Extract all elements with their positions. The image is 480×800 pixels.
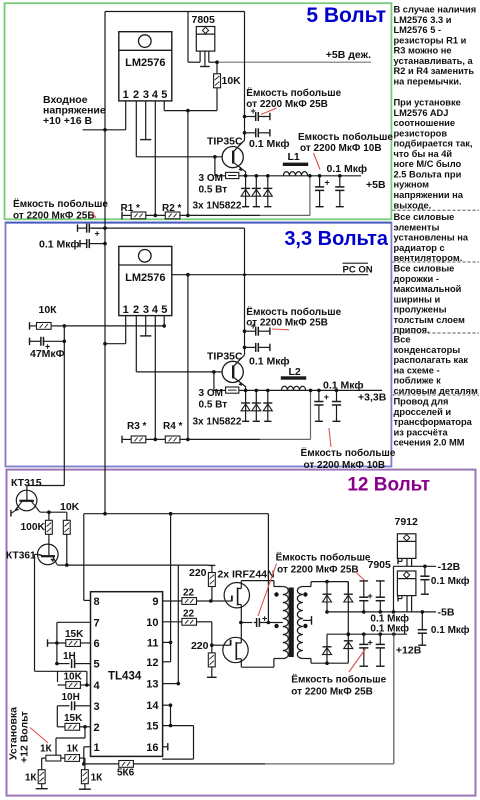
diode D1 1N5822 xyxy=(241,176,250,207)
wire: pin4 sec2 feedback xyxy=(154,316,156,440)
Q3 bar xyxy=(19,500,33,502)
pin16 stub + tick xyxy=(163,746,168,748)
10K riser xyxy=(57,671,59,682)
capacitor 2200uF out (sec2) xyxy=(314,401,323,403)
svg-text:4: 4 xyxy=(152,304,159,316)
svg-text:0.1 Мкф: 0.1 Мкф xyxy=(249,356,290,368)
svg-text:радиатор с: радиатор с xyxy=(394,243,445,253)
svg-text:10К: 10К xyxy=(39,304,58,316)
junction R3/R4/pin4 xyxy=(154,438,158,442)
red pointer xyxy=(314,153,321,170)
wire: drop to feedback wire xyxy=(187,111,189,216)
svg-text:1Н: 1Н xyxy=(63,651,76,662)
svg-text:8: 8 xyxy=(94,596,100,608)
pin12 stub + riser to feedback bus xyxy=(163,661,171,663)
svg-text:22: 22 xyxy=(183,588,195,599)
pin10 wire + 22 Ohm xyxy=(163,621,182,623)
svg-text:силовым деталям: силовым деталям xyxy=(394,386,478,396)
svg-text:Ёмкость побольше: Ёмкость побольше xyxy=(246,86,341,99)
output capacitors sec2 xyxy=(317,389,321,393)
wire: section2 top bus xyxy=(92,227,245,229)
svg-text:5К6: 5К6 xyxy=(117,768,135,779)
wire: bus to 220#1 xyxy=(178,564,208,566)
phase dot primary top xyxy=(274,592,278,596)
pin9 wire + 22 Ohm xyxy=(163,600,182,602)
wire: pin5 to 10K xyxy=(163,101,165,111)
pin2: 15K xyxy=(57,726,65,728)
wire: KT361 bus drop to pin13 xyxy=(177,565,179,684)
red pointer to snubber cap xyxy=(258,564,277,617)
svg-text:толстым слоем: толстым слоем xyxy=(394,315,465,325)
red tick xyxy=(92,212,97,219)
Q1 bar xyxy=(232,151,234,164)
svg-text:0.1 Мкф: 0.1 Мкф xyxy=(323,380,364,392)
svg-text:Все: Все xyxy=(394,335,411,345)
svg-text:47МкФ: 47МкФ xyxy=(30,348,65,360)
resistor 1K vertical left xyxy=(38,770,45,784)
svg-text:4: 4 xyxy=(94,680,101,692)
svg-text:2: 2 xyxy=(133,89,139,101)
transformer core xyxy=(289,588,294,658)
IC U1 LM2576 (5V) xyxy=(119,32,172,102)
potentiometer 1K xyxy=(46,755,61,761)
wire: pin4 net xyxy=(35,670,87,672)
svg-text:TL434: TL434 xyxy=(108,671,142,683)
wire: output return loop sec1 xyxy=(260,214,310,216)
secondary center tap xyxy=(303,619,312,621)
svg-text:сечения 2.0 ММ: сечения 2.0 ММ xyxy=(394,438,465,448)
svg-text:резисторов: резисторов xyxy=(394,128,448,138)
resistor R3 xyxy=(131,436,146,443)
capacitor 0.1uF left (sec2) xyxy=(79,240,81,247)
svg-text:L2: L2 xyxy=(289,366,301,378)
resistor 3 Ohm sec2 xyxy=(214,389,226,391)
svg-text:КТ361: КТ361 xyxy=(6,551,36,562)
svg-text:+12 Вольт: +12 Вольт xyxy=(19,711,31,763)
diode D7 xyxy=(323,582,332,612)
svg-text:0.5 Вт: 0.5 Вт xyxy=(199,400,228,411)
svg-text:+: + xyxy=(368,638,373,648)
wire: pin1 sec2 xyxy=(125,316,127,344)
pin6: tick, 15K xyxy=(47,639,49,646)
red pointer trimmer xyxy=(30,728,48,744)
svg-text:14: 14 xyxy=(146,700,159,712)
wire: pin8 riser and feedback bus y=513.7 xyxy=(83,514,85,601)
junction base/3ohm xyxy=(213,155,217,159)
wire: pin3 ground stub xyxy=(145,101,147,139)
svg-text:Ёмкость побольше: Ёмкость побольше xyxy=(276,551,371,564)
capacitor 2200uF +12 rail xyxy=(363,634,365,644)
wire: base drop sec2 xyxy=(213,372,215,391)
pin7 wire to pin6 node xyxy=(57,621,91,623)
wire: -12V rail xyxy=(394,565,437,567)
svg-text:LM2576: LM2576 xyxy=(125,272,165,284)
Q1 emitter diag xyxy=(233,162,245,172)
capacitor 2200uF out (sec1) xyxy=(315,186,324,188)
wire: KT361 emitter bus xyxy=(57,564,178,566)
svg-text:от 2200 МкФ 25В: от 2200 МкФ 25В xyxy=(291,687,373,698)
svg-text:1: 1 xyxy=(123,304,129,316)
svg-text:3,3 Вольта: 3,3 Вольта xyxy=(284,228,389,250)
diode D3 1N5822 xyxy=(263,176,272,207)
resistor R1 xyxy=(131,212,146,219)
svg-text:от 2200 МкФ 25В: от 2200 МкФ 25В xyxy=(246,99,328,110)
resistor 15K pin6 xyxy=(66,640,81,647)
capacitor 2200uF 25V (input, sec1) xyxy=(245,116,256,118)
wire: pin4 feedback down to R1/R2 junction xyxy=(154,101,156,215)
svg-text:0.1 Мкф: 0.1 Мкф xyxy=(431,575,470,587)
svg-text:максимальной: максимальной xyxy=(394,284,462,294)
diode D5 1N5822 xyxy=(252,390,261,421)
svg-text:-12В: -12В xyxy=(438,561,461,573)
svg-text:1К: 1К xyxy=(91,773,104,784)
svg-text:1К: 1К xyxy=(25,773,38,784)
M1 gate bar xyxy=(231,596,233,602)
svg-text:10: 10 xyxy=(146,617,158,629)
svg-text:R4 *: R4 * xyxy=(163,421,183,432)
svg-text:конденсаторы: конденсаторы xyxy=(394,345,461,355)
wire: collector rail x=244.5 xyxy=(244,12,246,141)
capacitor 2200uF 25V left (sec2) xyxy=(77,224,79,231)
wire: output wire sec2 xyxy=(246,389,382,391)
svg-text:10K: 10K xyxy=(64,672,83,683)
wire to cap xyxy=(241,622,252,624)
Q3 base diag xyxy=(31,501,40,512)
section border 3.3V (blue) xyxy=(6,223,392,467)
pin14 stub xyxy=(163,704,171,706)
svg-text:+: + xyxy=(325,178,330,188)
wire: pin2 down-right to TIP35C base xyxy=(135,101,137,157)
wire: top input bus xyxy=(105,11,245,13)
svg-text:0.1 Мкф: 0.1 Мкф xyxy=(39,239,80,251)
IC U2 LM2576 (3.3V) xyxy=(119,246,172,316)
wire: negative rail (-) xyxy=(327,611,436,613)
rectifier bridge diodes xyxy=(325,580,329,584)
wire: M sources/drains node + snubber cap xyxy=(239,621,243,625)
svg-text:3 ОМ: 3 ОМ xyxy=(199,173,223,184)
capacitor 0.1uF +12 rail xyxy=(379,634,381,644)
resistor 10K pin4 xyxy=(58,684,66,686)
svg-text:0.1 Мкф: 0.1 Мкф xyxy=(431,624,470,636)
IC U5 TL434 xyxy=(91,592,163,757)
svg-text:7912: 7912 xyxy=(395,516,419,528)
svg-text:L1: L1 xyxy=(288,151,300,163)
svg-text:2: 2 xyxy=(94,722,100,734)
svg-text:Все силовые: Все силовые xyxy=(394,212,455,222)
secondary winding xyxy=(297,587,303,659)
svg-text:11: 11 xyxy=(147,637,159,649)
svg-text:3: 3 xyxy=(94,701,100,713)
wire: pin2 sec2 to TIP base xyxy=(135,316,137,372)
right side of chain xyxy=(80,757,85,759)
phase dot primary mid xyxy=(274,624,278,628)
junction cap 2200uF xyxy=(243,115,247,119)
svg-text:Провод для: Провод для xyxy=(394,397,449,407)
svg-text:резисторы R1 и: резисторы R1 и xyxy=(394,35,467,45)
svg-text:Ёмкость побольше: Ёмкость побольше xyxy=(291,673,386,686)
svg-text:15K: 15K xyxy=(64,713,83,724)
svg-text:LM2576 ADJ: LM2576 ADJ xyxy=(394,108,449,118)
resistor 3 Ohm 0.5W xyxy=(215,175,226,177)
wire: PC ON xyxy=(172,274,368,276)
svg-text:напряжении на: напряжении на xyxy=(394,190,464,200)
svg-text:Ёмкость побольше: Ёмкость побольше xyxy=(13,197,108,210)
svg-text:4: 4 xyxy=(152,89,159,101)
svg-text:6: 6 xyxy=(94,638,100,650)
red pointer to neg cap xyxy=(356,572,365,581)
capacitor 0.1uF out (sec1) xyxy=(335,186,344,188)
section border 12V (purple) xyxy=(7,470,476,796)
resistor R2 xyxy=(165,212,180,219)
svg-text:3х 1N5822: 3х 1N5822 xyxy=(193,201,242,212)
wire: input stub to pin1 xyxy=(83,129,126,131)
resistor 1K b xyxy=(65,755,80,762)
Q2 bar xyxy=(232,365,234,378)
diode D6 1N5822 xyxy=(263,390,272,421)
gnd tick 7805 xyxy=(200,66,210,68)
svg-text:5: 5 xyxy=(161,89,167,101)
Q1 collector diag xyxy=(233,140,244,152)
wire: KT361 left lead down xyxy=(35,553,38,555)
diode D2 1N5822 xyxy=(252,176,261,207)
svg-text:соотношение: соотношение xyxy=(394,118,456,128)
wire: pin1 riser xyxy=(125,101,127,130)
svg-text:2: 2 xyxy=(133,304,139,316)
wire: collector rail sec2 xyxy=(244,228,246,355)
svg-text:15: 15 xyxy=(146,721,158,733)
wire: +12 rail xyxy=(327,633,407,635)
svg-text:-5В: -5В xyxy=(438,607,455,619)
svg-text:+5В: +5В xyxy=(366,179,386,191)
svg-text:нужном: нужном xyxy=(394,180,430,190)
resistor 1K vertical right xyxy=(84,764,86,770)
svg-text:от 2200 МкФ 10В: от 2200 МкФ 10В xyxy=(300,143,382,154)
red pointer xyxy=(261,108,277,115)
svg-text:10K: 10K xyxy=(60,501,80,513)
svg-text:13: 13 xyxy=(146,679,158,691)
svg-text:от 2200 МкФ 25В: от 2200 МкФ 25В xyxy=(246,318,328,329)
phase dot secondary mid xyxy=(303,624,307,628)
wire: 7805 input riser xyxy=(187,12,189,63)
svg-text:15K: 15K xyxy=(65,629,84,640)
svg-text:3: 3 xyxy=(143,89,149,101)
svg-text:пролужены: пролужены xyxy=(394,305,447,315)
svg-text:Ёмкость побольше: Ёмкость побольше xyxy=(246,305,341,318)
wire: output wire sec1 xyxy=(246,175,361,177)
svg-text:R1 *: R1 * xyxy=(121,203,141,214)
red pointer sec2 xyxy=(329,428,331,447)
wire pin3 to 15K xyxy=(56,706,58,727)
tick R3 left xyxy=(121,436,123,443)
svg-text:12: 12 xyxy=(146,657,158,669)
svg-text:7805: 7805 xyxy=(192,14,216,26)
wire: 10K node down to KT315 collector wire xyxy=(63,341,65,485)
svg-text:3 ОМ: 3 ОМ xyxy=(199,388,223,399)
wire pin14-pin15 xyxy=(170,705,172,725)
svg-text:дорожки -: дорожки - xyxy=(394,274,439,284)
svg-text:2.5 Вольта при: 2.5 Вольта при xyxy=(394,169,462,179)
M2 channel xyxy=(235,642,237,660)
pin5: 1H cap xyxy=(57,663,70,665)
svg-text:на перемычки.: на перемычки. xyxy=(394,76,462,86)
svg-text:12 Вольт: 12 Вольт xyxy=(347,475,430,496)
svg-text:1К: 1К xyxy=(40,744,53,755)
svg-text:дросселей и: дросселей и xyxy=(394,407,452,417)
svg-text:Емкость побольше: Емкость побольше xyxy=(298,131,393,143)
phase dot secondary top xyxy=(303,592,307,596)
wire: pin5 sec2 / 10K wire xyxy=(163,316,165,326)
svg-text:+12В: +12В xyxy=(396,645,422,657)
svg-text:устанавливать, а: устанавливать, а xyxy=(394,56,474,66)
wire: neg input riser xyxy=(393,566,395,612)
MOSFET M2 IRFZ44N xyxy=(223,637,248,662)
svg-text:установлены на: установлены на xyxy=(394,233,469,243)
resistor 10K vertical (sec3) xyxy=(66,512,68,520)
svg-text:При установке: При установке xyxy=(394,98,461,108)
diode D8 D10 column xyxy=(344,582,353,664)
svg-text:9: 9 xyxy=(152,596,158,608)
primary winding xyxy=(283,587,289,659)
Q4 emitter diag xyxy=(53,556,58,564)
svg-text:16: 16 xyxy=(146,742,158,754)
wire: pc-on node drop xyxy=(187,275,189,440)
svg-text:TIP35C: TIP35C xyxy=(207,136,243,148)
resistor 22 (gate2) xyxy=(182,618,197,625)
wire: pin2 node to pot wiper xyxy=(84,727,86,738)
svg-text:Все силовые: Все силовые xyxy=(394,264,455,274)
pin13 stub xyxy=(163,683,179,685)
resistor 10K (7805 load) xyxy=(216,62,218,74)
svg-text:что бы на 4й: что бы на 4й xyxy=(394,149,453,159)
diode D4 1N5822 xyxy=(241,390,250,421)
svg-text:Ёмкость побольше: Ёмкость побольше xyxy=(301,446,396,459)
svg-text:LM2576 3.3 и: LM2576 3.3 и xyxy=(394,15,452,25)
gnd tick pin3 xyxy=(140,139,151,141)
svg-text:0.5 Вт: 0.5 Вт xyxy=(199,185,228,196)
MOSFET M1 IRFZ44N xyxy=(224,583,249,608)
pin3: 10H cap xyxy=(57,705,69,707)
Q4 bar xyxy=(41,555,55,557)
svg-text:+5В деж.: +5В деж. xyxy=(326,49,371,61)
svg-text:из рассчёта: из рассчёта xyxy=(394,427,449,437)
section border 5V (green) xyxy=(5,3,392,219)
capacitor 2200uF neg rail xyxy=(360,580,369,582)
PC ON overline xyxy=(343,262,369,264)
svg-text:ширины и: ширины и xyxy=(394,294,441,304)
capacitor 47uF xyxy=(63,326,65,341)
svg-text:PC ON: PC ON xyxy=(343,264,373,275)
svg-text:1К: 1К xyxy=(67,744,80,755)
capacitor 0.1uF (sec2 mid) xyxy=(245,346,256,348)
resistor 5K6 xyxy=(119,761,134,768)
resistor 22 (gate1) xyxy=(182,598,197,605)
svg-text:от 2200 МкФ 25В: от 2200 МкФ 25В xyxy=(13,210,95,221)
svg-text:2х IRFZ44N: 2х IRFZ44N xyxy=(217,569,274,581)
svg-text:от 2200 МкФ 25В: от 2200 МкФ 25В xyxy=(277,565,359,576)
Q3 emitter xyxy=(15,501,23,511)
transformer T1 primary xyxy=(241,580,274,582)
svg-text:3х 1N5822: 3х 1N5822 xyxy=(193,417,242,428)
svg-text:+10 +16 В: +10 +16 В xyxy=(43,115,92,127)
pin8 stub xyxy=(84,599,91,601)
wire: +12 drop to bottom feedback xyxy=(393,634,395,764)
M2 gate bar xyxy=(230,640,232,646)
svg-text:R3 можно не: R3 можно не xyxy=(394,46,452,56)
resistor R4 xyxy=(165,436,180,443)
pin15 + loop xyxy=(163,725,194,727)
svg-text:3: 3 xyxy=(143,304,149,316)
red pointer to +12 cap xyxy=(349,649,365,672)
wire: +5V standby bus xyxy=(217,61,371,63)
capacitor 0.1uF -12 xyxy=(424,566,426,576)
svg-text:0.1 Мкф: 0.1 Мкф xyxy=(370,622,409,634)
svg-text:220: 220 xyxy=(189,567,207,579)
diode D9 xyxy=(323,634,332,663)
wire: output return loop sec2 xyxy=(260,438,311,440)
wire: center tap riser xyxy=(267,514,269,623)
svg-text:от 2200 МкФ 10В: от 2200 МкФ 10В xyxy=(304,460,386,471)
svg-text:+3,3В: +3,3В xyxy=(358,392,387,404)
svg-text:R2 *: R2 * xyxy=(162,203,182,214)
svg-text:100K: 100K xyxy=(21,522,46,533)
svg-text:LM2576: LM2576 xyxy=(125,57,165,69)
pin11 stub xyxy=(163,641,171,643)
svg-text:В случае наличия: В случае наличия xyxy=(394,5,477,15)
svg-text:трансформатора: трансформатора xyxy=(394,417,473,427)
resistor 15K pin2 xyxy=(65,723,80,730)
svg-text:располагать как: располагать как xyxy=(394,355,469,365)
svg-text:элементы: элементы xyxy=(394,222,440,232)
svg-text:22: 22 xyxy=(183,608,195,619)
svg-text:7905: 7905 xyxy=(368,559,392,571)
junction input/rail xyxy=(103,128,107,132)
svg-text:10Н: 10Н xyxy=(62,692,80,703)
svg-text:ноге М/С было: ноге М/С было xyxy=(394,159,462,169)
Q2 collector diag xyxy=(233,355,244,367)
capacitor 0.1uF -5 xyxy=(421,612,423,630)
wire: main left input rail (runs through all sections) xyxy=(104,12,106,514)
svg-text:+: + xyxy=(368,591,373,601)
wire: bottom feedback bus + 5K6 xyxy=(84,763,119,765)
svg-text:R3 *: R3 * xyxy=(127,421,147,432)
pin1 stub down to bottom bus xyxy=(84,746,91,748)
capacitor 2200uF 25V (sec2 mid) xyxy=(245,330,256,332)
capacitor 0.1uF out (sec2) xyxy=(332,401,341,403)
svg-text:7: 7 xyxy=(94,617,100,629)
svg-text:LM2576 5 -: LM2576 5 - xyxy=(394,25,442,35)
capacitor 0.1uF neg rail xyxy=(376,580,385,582)
svg-text:поближе к: поближе к xyxy=(394,376,442,386)
svg-text:0.1 Мкф: 0.1 Мкф xyxy=(327,163,368,175)
capacitor 0.1uF (sec1) xyxy=(245,132,256,134)
junction pin5-node xyxy=(186,109,190,113)
output capacitors sec1 xyxy=(318,174,322,178)
svg-text:5 Вольт: 5 Вольт xyxy=(306,4,386,27)
svg-text:0.1 Мкф: 0.1 Мкф xyxy=(249,138,290,150)
svg-text:подбирается так,: подбирается так, xyxy=(394,139,473,149)
tick R1 left xyxy=(121,212,123,219)
M1 channel xyxy=(237,588,239,606)
svg-text:+: + xyxy=(262,614,267,624)
svg-text:1: 1 xyxy=(123,89,129,101)
junction R1/R2/pin4 xyxy=(154,214,158,218)
Q2 emitter diag xyxy=(233,377,245,387)
wire: pin3 sec2 gnd xyxy=(145,316,147,336)
svg-text:TIP35C: TIP35C xyxy=(207,351,243,363)
junction cap 0.1uF xyxy=(243,131,247,135)
wire: base divider drop xyxy=(214,157,216,176)
svg-text:на схеме -: на схеме - xyxy=(394,365,440,375)
